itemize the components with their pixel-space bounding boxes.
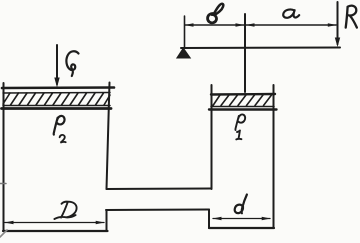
small piston hatching bbox=[213, 95, 272, 106]
dimension d line bbox=[213, 218, 270, 220]
force line R bbox=[337, 2, 339, 44]
stray mark bottom left corner bbox=[0, 230, 7, 237]
arrowhead a left bbox=[246, 23, 255, 27]
arrowhead a right bbox=[328, 23, 337, 27]
small cylinder left wall bbox=[211, 85, 213, 189]
channel bottom line bbox=[106, 209, 209, 212]
big piston hatching bbox=[3, 93, 110, 105]
big piston hatch box top bbox=[3, 92, 110, 95]
extension line left bbox=[184, 16, 186, 47]
rod from lever to small piston bbox=[244, 14, 246, 92]
dimension line b bbox=[185, 24, 244, 26]
arrowhead d left bbox=[213, 217, 222, 221]
label b ascender bbox=[214, 4, 224, 15]
label R bbox=[346, 6, 357, 28]
arrowhead b right bbox=[236, 23, 245, 27]
label d bbox=[235, 195, 247, 214]
big piston hatch box bottom bbox=[3, 105, 110, 107]
big cylinder bottom bbox=[3, 230, 108, 232]
big cylinder left wall bbox=[3, 83, 5, 231]
small cup step bbox=[208, 210, 210, 229]
dimension D line bbox=[5, 222, 104, 224]
arrowhead D right bbox=[96, 221, 105, 225]
big piston bottom thick line bbox=[2, 107, 112, 110]
big piston top line bbox=[2, 86, 114, 89]
small cylinder right wall bbox=[273, 85, 275, 228]
stray mark left edge bbox=[0, 183, 6, 185]
label p1 bbox=[235, 114, 245, 139]
small piston hatch bottom bbox=[211, 106, 274, 108]
arrowhead D left bbox=[5, 221, 14, 225]
small piston top line bbox=[211, 93, 275, 96]
arrowhead b left bbox=[185, 23, 194, 27]
big cylinder right wall bbox=[107, 83, 110, 190]
label G bbox=[66, 51, 78, 76]
small piston bottom thick line bbox=[209, 108, 277, 110]
label a bbox=[283, 9, 299, 17]
label b bbox=[208, 14, 217, 23]
channel top line bbox=[107, 188, 212, 191]
pivot fulcrum triangle bbox=[177, 49, 190, 58]
arrowhead R down bbox=[335, 38, 340, 48]
big cylinder bottom step bbox=[106, 210, 108, 231]
lever beam bbox=[181, 47, 340, 50]
arrowhead d right bbox=[262, 217, 271, 221]
dimension line a bbox=[246, 24, 336, 26]
label D script bbox=[54, 202, 76, 219]
arrowhead G down bbox=[54, 78, 59, 88]
force arrow G line bbox=[56, 45, 58, 84]
small cup bottom bbox=[209, 227, 274, 229]
label p2 bbox=[54, 116, 65, 135]
